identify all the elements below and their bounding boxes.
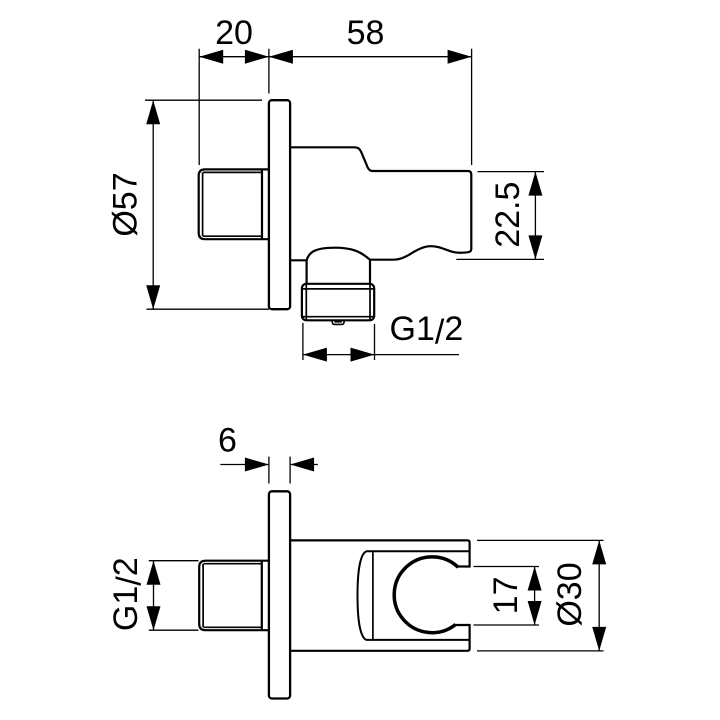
dimension 17 line (534, 567, 536, 626)
dimension 6 line with outside arrows (220, 464, 318, 466)
svg-text:Ø30: Ø30 (551, 562, 589, 626)
arrow D30 top (592, 540, 606, 564)
dimension 6 extension lines (269, 457, 290, 484)
svg-text:20: 20 (215, 14, 253, 52)
arrow G1/2 bottom (147, 606, 161, 630)
svg-text:17: 17 (487, 576, 525, 614)
arrow 20 left (199, 50, 223, 64)
dimension G1/2 (side view) line (303, 354, 459, 356)
arrow 22.5 bottom (528, 235, 542, 259)
arrow D30 bottom (592, 627, 606, 651)
dimension 20/58 extension lines (199, 49, 471, 165)
dimension D30 line (598, 540, 600, 651)
body outline with C-clip notch (bottom view) (290, 540, 470, 650)
arrow 22.5 top (528, 172, 542, 196)
dimension G1/2 (bottom view) line (153, 561, 155, 631)
dimension 22.5 extension lines (456, 172, 544, 260)
arrow G1/2 top (147, 561, 161, 585)
C-clip ring (bottom view) (394, 557, 458, 633)
arrow G1/2 right (351, 348, 375, 362)
bracket dome contour line (bottom view) (372, 552, 374, 639)
arrow 6 right (290, 458, 314, 472)
dimension D30 extension lines (477, 540, 604, 651)
holder right face and bottom cradle curve (side view) (370, 175, 471, 260)
arrow 17 bottom (528, 601, 542, 625)
svg-text:6: 6 (218, 422, 237, 460)
dimension D57 extension lines (145, 100, 269, 309)
outlet nipple (side view) (332, 320, 344, 325)
svg-text:G1/2: G1/2 (390, 310, 464, 352)
arrow 6 left (245, 458, 269, 472)
svg-text:Ø57: Ø57 (107, 172, 145, 236)
svg-text:58: 58 (347, 14, 385, 52)
holder bracket top/bottom edges (bottom view) (358, 551, 470, 640)
dimension 22.5 line (534, 172, 536, 260)
outlet nut band (side view) (302, 284, 374, 321)
wall flange (bottom view) (269, 491, 290, 698)
arrow 58 right (448, 50, 472, 64)
outlet cylinder sides (side view) (307, 260, 370, 284)
arrow 17 top (528, 567, 542, 591)
body top profile (side view) (290, 147, 472, 174)
thread chamfer lines (side view) (203, 172, 262, 236)
arrow D57 bottom (146, 285, 160, 309)
nut band chamfer lines (side view) (303, 285, 374, 320)
dimension G1/2 (bottom view) extension lines (149, 561, 199, 631)
dimension D57 line (152, 100, 154, 309)
svg-text:22.5: 22.5 (489, 182, 527, 248)
dimension 17 extension lines (474, 567, 540, 626)
arrow 20 right (245, 50, 269, 64)
svg-text:G1/2: G1/2 (107, 557, 149, 631)
dome over outlet (side view) (307, 248, 370, 261)
wall flange (side view) (269, 100, 290, 309)
arrow G1/2 left (303, 348, 327, 362)
dimension 20/58 line (199, 56, 471, 58)
dimension G1/2 (side view) extension lines (303, 323, 375, 360)
thread chamfer lines (bottom view) (203, 564, 262, 628)
arrow D57 top (146, 100, 160, 124)
inlet thread G1/2 (side view) outer (199, 169, 269, 239)
inlet thread G1/2 (bottom view) outer (199, 561, 269, 631)
arrow 58 left (269, 50, 293, 64)
body bottom line flange to outlet (side view) (290, 259, 307, 261)
